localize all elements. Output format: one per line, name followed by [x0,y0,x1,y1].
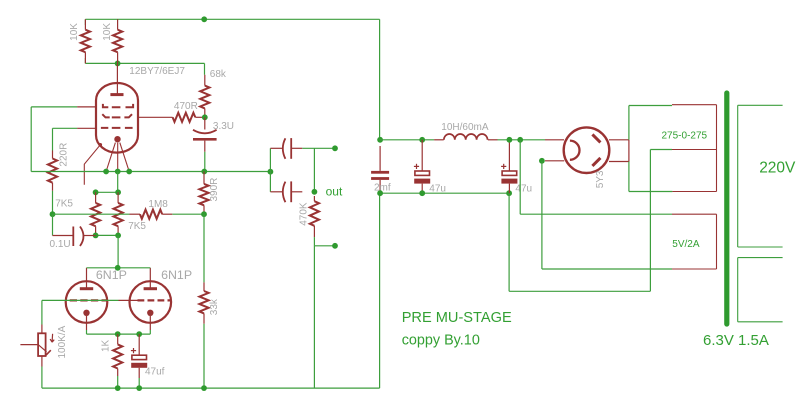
resistor R 1K [113,334,122,376]
label 10H/60mA [441,122,489,133]
tube U1 12BY7/6EJ7 envelope [96,83,138,153]
wire 7K5 bottom bridge [96,234,119,236]
wire bottom rail riser to filter ground [379,193,381,388]
capacitor C 3.3U [193,117,217,152]
U1 heater pin dangling [84,143,102,185]
label 6.3V 1.5A [703,332,769,349]
svg-text:7K5: 7K5 [128,221,146,232]
node junction 68k/470R/3.3U [202,114,208,120]
wire B+ into 5Y3 pin [545,139,564,141]
svg-text:out: out [326,185,343,199]
svg-text:5Y3: 5Y3 [595,170,606,188]
transformer T1 5V winding pins [672,214,717,269]
svg-text:47uf: 47uf [145,367,165,378]
transformer T1 220V secondary bracket [738,105,783,247]
wire HV center tap ground [509,150,672,292]
potentiometer P 100K/A [20,325,54,367]
resistor R 220R [48,151,57,191]
svg-text:coppy By.10: coppy By.10 [402,333,480,349]
V3 anode plate lower [592,158,600,166]
V3 anode plate upper [592,134,600,142]
node bottom bridge dots [93,233,121,239]
svg-text:220R: 220R [59,143,70,167]
node bus dots under tube [103,169,132,175]
wire grid3 to ground bus [31,107,77,172]
svg-text:10K: 10K [69,23,80,41]
svg-text:390R: 390R [209,178,220,202]
label 10K right [102,23,113,41]
V2 grid dashes [138,299,172,301]
svg-text:33k: 33k [209,298,220,315]
resistor R 7K5 left [91,192,100,235]
svg-text:PRE MU-STAGE: PRE MU-STAGE [402,310,512,326]
svg-text:220V: 220V [759,159,796,176]
label 5Y3 [595,170,606,188]
node 47u-2 top dot [507,137,513,143]
node plates tie dot [115,265,121,271]
node 47u-1 top dot [419,137,425,143]
U1 cathode pin lines [106,143,129,172]
svg-text:100K/A: 100K/A [57,325,68,358]
U1 plate bar [110,93,123,96]
svg-text:5V/2A: 5V/2A [672,239,700,250]
svg-text:1K: 1K [101,339,112,352]
wire 220R bottom to 1M8 node [52,191,54,214]
V1 plate bar [80,287,93,290]
label 0.1U [50,239,71,250]
node 390R bottom dot [201,211,207,217]
tube V1 6N1P left envelope [66,281,108,323]
label 2mf [374,183,391,194]
V3 filament arc [570,141,580,160]
wire top rail corner down to filter [379,19,381,140]
label 47u second [515,183,532,194]
wire 470K bottom stub [314,237,335,246]
wire pot to bottom rail [41,367,43,389]
U1 grid3 pin [77,106,96,108]
wire top cap out stub [302,148,335,192]
svg-text:470K: 470K [299,202,310,226]
wire 6N1P plates tie [87,235,151,267]
wire anode1 to HV winding top [629,106,672,140]
label 47u first [429,183,446,194]
node B+ filter input dot [377,137,383,143]
transformer T1 core bar [724,93,729,324]
label 6N1P right [161,268,192,282]
resistor R 10K left [81,19,90,63]
label 220V [759,159,796,176]
svg-text:6N1P: 6N1P [161,268,192,282]
U1 grid1 pin [77,127,96,129]
node bus end dot [268,169,274,175]
wire 3.3U to ground bus [204,152,206,172]
svg-text:10H/60mA: 10H/60mA [441,122,489,133]
transformer T1 HV winding pins [672,105,717,192]
node 1M8 wire dot [50,211,56,217]
node 470K stub dot [332,243,338,249]
V3 filament lower pin [545,160,564,162]
label 470K [299,202,310,226]
tube V3 5Y3 envelope [564,127,610,173]
wire B+ filter line [380,139,545,141]
label 12BY7/6EJ7 [129,66,185,77]
svg-text:7K5: 7K5 [55,199,73,210]
svg-text:275-0-275: 275-0-275 [662,131,708,142]
U1 grid2 dashes [102,114,132,117]
resistor R 68k [200,63,209,117]
resistor R 7K5 right [114,192,123,235]
label 68k [210,69,227,80]
wire 5V winding bottom feed [542,161,672,269]
label 3.3U [213,121,234,132]
wire 1M8 row [53,213,205,215]
U1 cathode dot [114,136,120,142]
node filter ground dots [377,190,512,196]
V2 plate bar [144,287,157,290]
wire ground bus [31,171,270,173]
label 6N1P left [96,268,127,282]
label coppy By.10 [402,333,480,349]
label 100K/A [57,325,68,358]
resistor R 390R [199,172,208,215]
node junction anode wire [115,61,121,67]
label 10K left [69,23,80,41]
wire 33k to bottom rail [203,324,205,388]
resistor R 1M8 [130,210,173,219]
label out [326,185,343,199]
node bus dot at 390R [201,169,207,175]
wire 47uf to bottom rail [138,378,140,388]
capacitor C coupling top [270,138,302,159]
wire grid1 to 220R [53,128,78,150]
wire 7K5 top bridge [96,172,119,193]
wire left grid to pot [42,300,119,324]
node bottom rail dots [115,385,207,391]
V2 plate lead [149,268,151,289]
resistor R 10K right [113,19,122,63]
node out stub top dot [332,145,338,151]
wire 1K to bottom rail [117,376,119,388]
svg-text:1M8: 1M8 [148,199,168,210]
resistor R 470R [138,113,205,122]
label 47uf [145,367,165,378]
node 5V feed dot [517,137,523,143]
wire 5V winding top feed [520,140,672,214]
wire cathode rail [87,330,151,334]
capacitor C 47u second [501,140,517,193]
label 275-0-275 [662,131,708,142]
svg-text:47u: 47u [515,183,532,194]
svg-text:6.3V 1.5A: 6.3V 1.5A [703,332,769,349]
wire filter ground line [380,192,510,194]
wire bottom rail [42,387,380,389]
svg-text:68k: 68k [210,69,227,80]
node out junction dot [312,189,318,195]
capacitor C 47uf [131,334,147,378]
label 1K [101,339,112,352]
svg-text:12BY7/6EJ7: 12BY7/6EJ7 [129,66,185,77]
capacitor C 2mf [371,146,389,193]
label 7K5 left [55,199,73,210]
V3 anode upper pin [609,139,629,141]
U1 anode lead [116,63,118,94]
svg-text:0.1U: 0.1U [50,239,71,250]
svg-text:3.3U: 3.3U [213,121,234,132]
svg-text:10K: 10K [102,23,113,41]
wire 470K to bottom rail [313,246,315,388]
U1 grid3 dashes [103,104,133,107]
svg-text:470R: 470R [174,101,198,112]
label 5V/2A [672,239,700,250]
transformer T1 6.3V secondary bracket [738,258,783,322]
wire anode2 riser [629,140,673,192]
inductor L 10H/60mA [434,134,497,140]
label 220R [59,143,70,167]
label 470R [174,101,198,112]
label 390R [209,178,220,202]
node filament lower dot [539,158,545,164]
node junction top rail [201,16,207,22]
label 1M8 [148,199,168,210]
wire coupling caps feed [269,148,271,192]
label PRE MU-STAGE [402,310,512,326]
resistor R 470K [310,196,319,237]
V1 cathode dot [83,310,89,330]
tube V2 6N1P right envelope [130,281,172,323]
capacitor C 0.1U [53,214,96,246]
capacitor C coupling bottom [270,181,302,202]
svg-text:6N1P: 6N1P [96,268,127,282]
wire 12BY7 plate supply [85,19,204,63]
wire 390R to 33k [203,214,205,282]
U1 grid1 dashes [101,127,133,129]
V2 cathode dot [147,310,153,330]
wire top B+ rail [85,18,379,20]
wire grids tie between tubes [119,299,138,301]
label 7K5 right [128,221,146,232]
V1 plate lead [86,268,88,289]
V3 anode lower pin [609,161,629,163]
label 33k [209,298,220,315]
capacitor C 47u first [414,140,430,193]
node bridge dots [93,189,121,195]
node cathode rail dots [115,331,142,337]
resistor R 33k [199,282,208,323]
V1 grid dashes [70,299,107,301]
